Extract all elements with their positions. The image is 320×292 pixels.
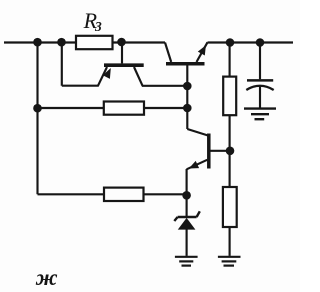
node junction dot on left rail bbox=[33, 104, 42, 113]
transistor Q2 (NPN pass, top right) bbox=[165, 42, 208, 129]
wire bottom resistor to zener node bbox=[144, 193, 187, 195]
wire from left rail to middle resistor bbox=[38, 107, 104, 109]
wire lower right resistor to ground bbox=[229, 227, 231, 256]
node junction dot on top rail (left rail tap) bbox=[33, 38, 42, 47]
zener diode VD1 bbox=[174, 195, 200, 256]
wire middle resistor to base node bbox=[144, 107, 187, 109]
transistor Q3 (NPN, middle) bbox=[187, 129, 230, 169]
resistor (bottom, feedback) bbox=[104, 188, 144, 201]
resistor (lower right, vertical) bbox=[223, 187, 237, 227]
node junction dot (middle resistor / base line) bbox=[183, 104, 192, 113]
capacitor C1 (electrolytic) bbox=[246, 80, 273, 107]
node junction dot (Q1 collector / Q2 base) bbox=[183, 82, 192, 91]
node junction dot on top rail (base tap) bbox=[117, 38, 126, 47]
wire top rail middle segment bbox=[113, 41, 166, 43]
wire collector of Q1 to base node of Q2 bbox=[142, 85, 188, 87]
label zh (figure caption) bbox=[36, 265, 58, 291]
node junction dot on top rail (capacitor tap) bbox=[256, 38, 265, 47]
transistor Q1 (PNP, top left) bbox=[98, 43, 144, 86]
wire top rail to capacitor bbox=[259, 43, 261, 80]
wire top rail to upper right resistor bbox=[229, 43, 231, 77]
resistor (middle, base divider) bbox=[104, 102, 144, 115]
wire emitter of Q3 down to zener node bbox=[186, 169, 188, 195]
ground (under capacitor) bbox=[244, 109, 276, 120]
ground (under lower right resistor) bbox=[218, 257, 241, 266]
wire left rail vertical bbox=[36, 43, 38, 195]
resistor R3 bbox=[76, 36, 113, 49]
label R3 bbox=[84, 8, 97, 34]
node junction dot (Q3 collector / resistor chain) bbox=[226, 147, 235, 156]
node junction dot on top rail (emitter tap) bbox=[57, 38, 66, 47]
wire bottom left from rail to bottom resistor bbox=[38, 193, 105, 195]
ground (under zener) bbox=[175, 257, 198, 266]
wire top rail right segment bbox=[208, 41, 294, 43]
node junction dot on top rail (resistor chain tap) bbox=[226, 38, 235, 47]
wire between right resistors bbox=[229, 115, 231, 187]
wire emitter of Q1 to top rail bbox=[62, 43, 99, 86]
node junction dot (zener top) bbox=[182, 191, 191, 200]
resistor (upper right, vertical) bbox=[223, 77, 236, 116]
wire top rail left segment bbox=[4, 41, 76, 43]
